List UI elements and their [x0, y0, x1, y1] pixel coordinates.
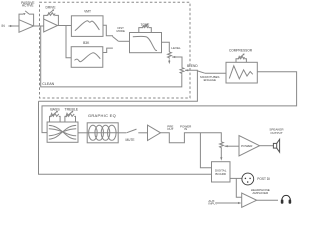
potentiometer LEVEL: [168, 52, 172, 59]
wire VMT out: [103, 25, 113, 35]
switch S3 microtubes engage: [198, 71, 205, 73]
block DIGITAL BOARD: [212, 162, 231, 182]
wire aux input arrow: [217, 202, 241, 204]
block GRAPHIC EQ: [87, 123, 118, 143]
svg-text:TREBLE: TREBLE: [64, 107, 78, 111]
svg-text:IN: IN: [2, 24, 6, 28]
wire drive out to VMT: [58, 25, 72, 27]
wire to graphic eq: [78, 132, 87, 134]
block TONE: [130, 33, 162, 53]
svg-text:MODE: MODE: [116, 29, 125, 33]
labels SPEAKER OUTPUT: [269, 128, 284, 135]
svg-text:AMPLIFIER: AMPLIFIER: [252, 191, 269, 195]
labels AUX INPUT: [208, 199, 217, 206]
switch S1 passive/active: [19, 14, 24, 20]
labels PRE OUT / POWER IN: [167, 124, 192, 131]
speaker icon: [273, 139, 279, 152]
switch S4 mute: [118, 132, 126, 134]
wire input arrow: [8, 25, 19, 27]
block COMPRESSOR: [226, 62, 257, 83]
connector XLR post DI: [242, 173, 254, 185]
svg-text:INPUT: INPUT: [208, 202, 217, 206]
svg-text:B3K: B3K: [83, 41, 90, 45]
wire B3K out: [103, 48, 113, 52]
wire branch to headphone amp: [236, 178, 241, 197]
wire compressor out loop to EQ section: [42, 72, 297, 133]
svg-text:OUT: OUT: [167, 127, 174, 131]
wire digital board to XLR: [230, 177, 242, 179]
potentiometer BASS: [50, 116, 61, 122]
headphone icon: [282, 195, 291, 200]
wire pre out / power in loop: [161, 133, 222, 143]
svg-text:CLEAN: CLEAN: [42, 82, 54, 86]
svg-text:VMT: VMT: [84, 9, 91, 13]
wire U1 to drive amp: [34, 25, 44, 27]
block B3K: [71, 47, 103, 68]
wire TONE out to level pot: [162, 42, 170, 52]
svg-text:LEVEL: LEVEL: [171, 46, 181, 50]
wire branch to B3K: [66, 26, 71, 58]
svg-text:IN: IN: [184, 127, 187, 131]
svg-text:BLEND: BLEND: [187, 64, 198, 68]
op-amp U4 power amp: [239, 136, 260, 157]
switch S2 dist mode: [112, 36, 118, 41]
svg-text:OUTPUT: OUTPUT: [270, 131, 283, 135]
svg-text:ENGAGE: ENGAGE: [204, 78, 216, 82]
svg-text:POWER: POWER: [241, 144, 253, 148]
potentiometer MASTER: [220, 142, 224, 150]
dashed box microtubes section: [40, 2, 191, 98]
labels HEADPHONE AMPLIFIER: [251, 188, 270, 195]
op-amp U1 input buffer: [19, 20, 34, 33]
labels BASS TREBLE: [50, 107, 78, 111]
wire headphone out: [257, 199, 278, 201]
wire clean path: [41, 26, 182, 87]
label PASSIVE/ACTIVE: [21, 1, 34, 8]
svg-text:DRIVE: DRIVE: [45, 5, 56, 9]
wire branch to digital board upper: [200, 133, 211, 168]
wire blend bypass to digital board: [39, 101, 212, 174]
svg-text:GRAPHIC EQ: GRAPHIC EQ: [88, 113, 116, 118]
svg-text:BASS: BASS: [50, 107, 60, 111]
op-amp U5 headphone amp: [242, 193, 257, 207]
potentiometer TREBLE: [65, 116, 76, 122]
potentiometer COMPRESSOR: [236, 59, 246, 63]
op-amp U2 drive: [44, 19, 58, 32]
block VMT: [71, 16, 103, 37]
svg-text:MUTE: MUTE: [125, 138, 134, 142]
svg-text:ACTIVE: ACTIVE: [22, 4, 34, 8]
potentiometer TONE: [139, 28, 152, 33]
op-amp U3 preamp buffer: [148, 125, 161, 140]
svg-text:COMPRESSOR: COMPRESSOR: [229, 49, 253, 53]
block BASS TREBLE tone stack: [47, 122, 78, 142]
svg-text:POST DI: POST DI: [257, 177, 270, 181]
potentiometer DRIVE: [44, 15, 59, 25]
svg-text:BOARD: BOARD: [215, 172, 227, 176]
wire power amp to speaker: [260, 145, 274, 147]
potentiometer BLEND: [180, 68, 184, 75]
